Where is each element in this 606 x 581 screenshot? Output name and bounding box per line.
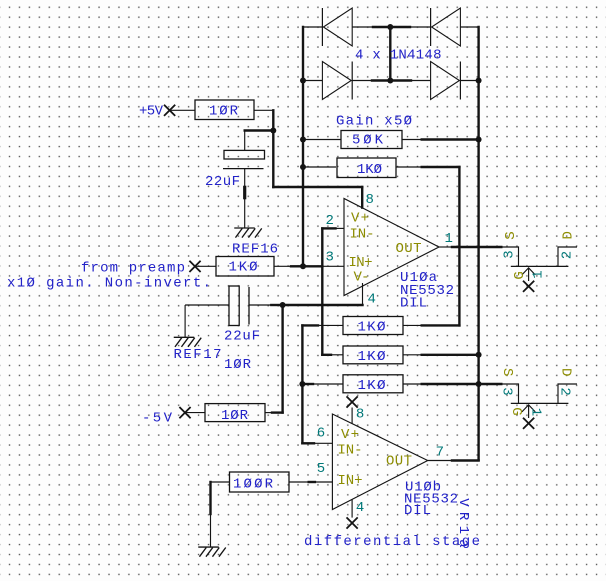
wire 100R to ground lower [210,514,212,547]
wire row2 right [422,354,479,356]
no-connect X at U10b pin8 [347,396,358,407]
wire row1 left lead [318,324,343,326]
no-connect X at -5V [179,407,190,418]
wire row3 left [302,383,313,385]
wire bridge center vertical [389,27,391,81]
wire V- rail vertical x=282.6 [281,305,283,413]
svg-text:G: G [512,271,528,279]
svg-text:22uF: 22uF [224,328,260,344]
svg-text:IN-: IN- [338,443,363,459]
wire D4 cathode lead [460,80,478,82]
wire row2 left [322,354,331,356]
JFET1 channel bar [511,265,569,267]
svg-text:V+: V+ [341,427,359,443]
resistor 1K0 (from preamp) [216,257,274,277]
no-connect X at +5V [164,105,175,116]
ground REF16 [234,228,262,238]
wire D3 cathode lead [352,80,372,82]
svg-text:from preamp: from preamp [81,260,185,276]
JFET2 channel bar [511,402,569,404]
junction bridge bottom center [387,78,393,84]
no-connect X at preamp input [189,261,200,272]
svg-text:4 x 1N4148: 4 x 1N4148 [355,48,442,64]
wire stub on C REF16 lead [243,187,246,197]
resistor 50K [341,131,402,149]
wire fb 1K0 right lead [396,166,422,168]
wire row3 left lead [313,383,343,385]
svg-text:5: 5 [317,461,325,477]
svg-text:REF16: REF16 [232,241,278,257]
wire IN- net vertical x=322.3 [321,228,323,354]
junction fb 1K0 left [300,164,306,170]
svg-text:1ØR: 1ØR [209,104,239,120]
pin 4 stub U10b [351,499,353,517]
pin 6 lead [314,442,332,444]
svg-text:7: 7 [436,445,444,461]
svg-text:IN-: IN- [350,227,375,243]
JFET1 gate arrow [522,268,535,275]
wire bottom center [372,79,411,81]
svg-text:3: 3 [326,250,334,266]
svg-text:1KØ: 1KØ [358,349,386,365]
svg-text:S: S [499,368,515,376]
pin 4 stub U10a [362,283,364,305]
wire 10R to V- rail [272,411,283,413]
pin 8 stub U10b [351,408,353,424]
svg-text:differential stage: differential stage [304,534,480,550]
wire top center-right [410,26,431,28]
wire row2 left lead [331,354,343,356]
wire 1K0 to IN+ node [291,265,303,267]
svg-text:2: 2 [326,213,334,229]
diode D4 (1N4148, points right) [431,62,460,100]
wire D1 anode lead [352,26,374,28]
svg-text:1: 1 [445,231,453,247]
wire X to 1K0 [196,265,217,267]
svg-text:2: 2 [556,387,572,395]
connector/JFET VR1 upper: pin 3 S lead [501,247,518,266]
no-connect X at JFET1 gate [523,281,534,292]
wire IN+ to pin3 [303,265,322,267]
junction V+ rail / cap branch [270,128,276,134]
resistor 1K0 (feedback top) [337,158,396,178]
svg-text:1ØR: 1ØR [224,357,252,373]
svg-text:5ØK: 5ØK [352,132,384,148]
svg-text:6: 6 [317,426,325,442]
wire 100R to ground upper [209,482,211,514]
resistor 100R [230,472,290,492]
wire U10b IN- vertical x=302.4 [301,325,303,443]
svg-text:3: 3 [498,387,514,395]
wire fb 1K0 right [422,166,460,168]
resistor 10R (-5V) [205,404,265,422]
svg-text:DIL: DIL [400,295,427,311]
wire stub on pin5 lead [309,481,315,483]
pin 3 lead [322,265,344,267]
diode D1 (1N4148, points left) [321,8,323,46]
svg-text:S: S [503,231,519,239]
junction row2 right [476,352,482,358]
wire row2 right lead [403,354,422,356]
JFET2 gate arrow [522,405,535,412]
pin 2 lead [336,227,345,229]
wire 10R to corner [254,109,273,111]
svg-text:2: 2 [560,251,576,259]
svg-text:22uF: 22uF [205,174,240,190]
capacitor 22uF REF17 [185,304,229,306]
junction bridge bottom right [476,78,482,84]
wire row3 right to VR1b [422,383,502,385]
pin 8 stub U10a [361,187,363,208]
svg-text:8: 8 [366,192,374,208]
wire V+ rail vertical x=273.3 [272,110,274,187]
connector/JFET VR1 lower: pin 2 D lead [558,384,577,403]
svg-text:DIL: DIL [404,503,431,519]
svg-text:8: 8 [356,406,364,422]
ground at 100R [198,547,226,557]
svg-text:REF17: REF17 [174,347,222,363]
diode D2 (1N4148, points left) [430,8,432,46]
wire U10b OUT to vertical [452,459,479,461]
svg-text:G: G [508,407,524,415]
svg-text:x1Ø gain. Non-invert.: x1Ø gain. Non-invert. [7,275,211,291]
junction bridge top center [387,24,393,30]
capacitor 22uF REF16 [244,131,246,151]
wire 50K left [303,139,341,141]
wire V- rail horizontal [283,304,363,306]
op-amp U10a triangle [344,199,439,296]
junction 50K right [476,137,482,143]
wire cap REF17 to ground [184,305,186,337]
wire fb 1K0 left [303,166,336,168]
svg-text:3: 3 [501,250,517,258]
ground REF17 [174,337,202,347]
wire top-left lead [303,26,322,28]
wire U10a OUT lead [439,246,452,248]
svg-text:-5V: -5V [142,410,173,426]
junction row3 right / U10b out [476,381,482,387]
connector/JFET VR1 upper: pin 2 D lead [558,247,577,266]
svg-text:+5V: +5V [139,104,164,120]
resistor 1K0 (row3) [343,375,403,393]
junction bridge bottom left [300,78,306,84]
svg-text:4: 4 [368,291,376,307]
wire row3 right lead [403,383,422,385]
svg-text:1KØ: 1KØ [357,162,382,178]
wire left vertical net IN+ x=303 [302,27,304,266]
svg-text:V+: V+ [351,210,369,226]
svg-text:1ØR: 1ØR [221,408,249,424]
diode D3 (1N4148, points right) [322,62,351,100]
svg-text:V-: V- [354,269,370,285]
wire D2 anode lead [460,26,478,28]
wire pin2 IN- U10a [322,227,335,229]
wire pin6 IN- U10b [302,442,314,444]
junction V- rail / cap REF17 [280,302,286,308]
svg-text:1KØ: 1KØ [229,259,258,275]
wire inner loop vertical x=459.4 [458,167,460,325]
wire row1 left [302,324,318,326]
no-connect X at JFET2 gate [523,418,534,429]
svg-text:Gain x5Ø: Gain x5Ø [336,113,412,129]
svg-text:IN+: IN+ [338,473,363,489]
svg-text:OUT: OUT [396,241,422,257]
wire U10a OUT to VR1 [452,246,501,248]
wire U10b OUT lead [428,460,452,462]
svg-text:1: 1 [528,408,544,416]
wire bottom-left lead [303,80,322,82]
resistor 1K0 (row2) [343,346,403,364]
junction 50K left [300,137,306,143]
no-connect X at U10b pin4 [347,517,358,528]
svg-text:1ØØR: 1ØØR [233,477,274,493]
connector/JFET VR1 lower: pin 3 S lead [501,384,518,403]
svg-text:1KØ: 1KØ [358,378,386,394]
svg-text:4: 4 [356,500,364,516]
wire row1 right lead [403,324,422,326]
resistor 10R (+5V) [195,100,254,120]
wire 1K0 right lead [274,265,291,267]
wire -5V to 10R [186,412,206,414]
resistor 1K0 (row1) [343,317,403,335]
op-amp U10b triangle [332,414,427,510]
svg-text:OUT: OUT [386,453,412,469]
wire 100R left lead [211,481,230,483]
junction IN+ node pin3 [300,263,306,269]
wire 50K right lead [402,139,422,141]
wire 10R right lead [265,412,272,414]
wire V+ rail horizontal to pin8 [273,186,362,188]
pin 5 lead from 100R [289,481,332,483]
wire +5V to R 10R [170,109,195,111]
junction row3 left [299,381,305,387]
svg-text:1: 1 [530,270,546,278]
wire right vertical net OUT x=478.6 [477,27,479,460]
wire top center [373,26,410,28]
wire 50K right [422,138,479,140]
wire row1 right to loop [422,324,460,326]
wire V+ rail to cap C REF16 [245,129,274,131]
wire bottom center-right [411,80,431,82]
svg-text:1KØ: 1KØ [358,320,386,336]
svg-text:D: D [557,368,573,376]
svg-text:D: D [560,231,576,239]
